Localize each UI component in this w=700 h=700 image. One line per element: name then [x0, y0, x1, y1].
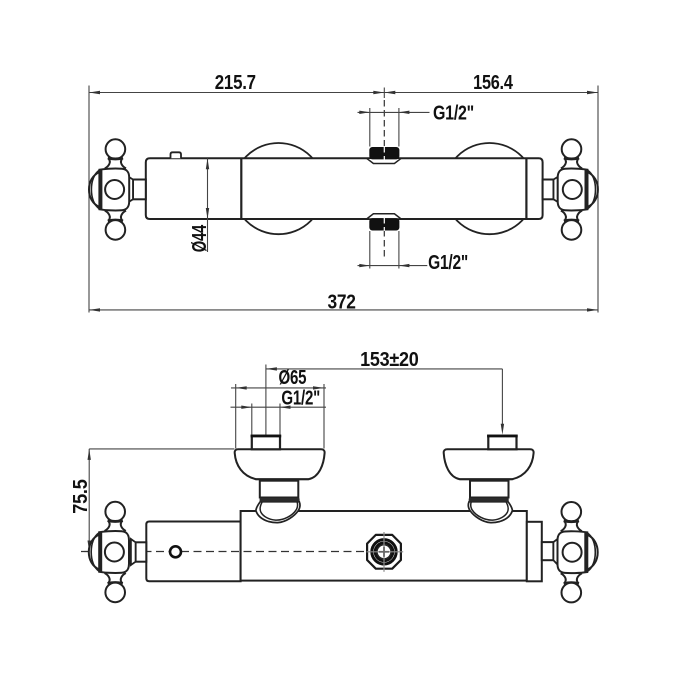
beak (eccentric olive) — [256, 502, 300, 523]
dia 65 dimension — [235, 384, 237, 449]
faucet body (top view) — [146, 158, 543, 219]
svg-text:Ø44: Ø44 — [189, 224, 211, 252]
svg-text:G1/2": G1/2" — [428, 252, 468, 274]
white dashes over nuts — [383, 146, 385, 161]
body division left — [240, 158, 242, 219]
stem right (front) — [542, 542, 554, 560]
escutcheon circle right — [444, 143, 535, 234]
center tick + dashed centerline of inlets — [383, 88, 385, 99]
svg-text:215.7: 215.7 — [215, 72, 256, 94]
dimension line 215.7 / 156.4 — [89, 92, 598, 94]
handle left (front) — [89, 502, 129, 602]
small button on top of body — [171, 152, 182, 158]
dia 44 dimension — [207, 158, 209, 252]
left connector (eccentric union + bell) — [235, 436, 325, 523]
svg-text:G1/2": G1/2" — [281, 387, 320, 409]
inlet nut top (black) — [370, 148, 399, 159]
body division right — [525, 158, 527, 219]
end cap right — [527, 522, 542, 582]
screw hole — [170, 546, 181, 557]
inlet nut chamfers — [367, 158, 402, 163]
stem left (front) — [136, 542, 147, 561]
G1/2 extension lines (top inlet) — [369, 108, 371, 147]
75.5 dimension line — [88, 449, 90, 556]
svg-text:75.5: 75.5 — [70, 479, 92, 513]
stem right — [543, 180, 554, 200]
nut — [260, 481, 299, 498]
G1/2 dimension (bottom inlet) — [358, 265, 428, 267]
372 dimension — [89, 309, 598, 311]
dashed centerline — [81, 551, 372, 553]
body barrel (main) — [241, 511, 527, 581]
G1/2 dimension (front) — [251, 404, 253, 435]
stub — [252, 436, 280, 450]
outlet port assembly — [367, 532, 404, 572]
stem left — [133, 180, 146, 200]
75.5 reference line — [89, 448, 234, 450]
body sleeve (left) — [146, 522, 240, 582]
handle left — [89, 139, 129, 239]
G1/2 dimension (top inlet) — [358, 111, 430, 113]
right connector (mirror) — [444, 436, 534, 523]
handle right — [558, 139, 598, 239]
G1/2 extension lines (bottom inlet) — [369, 231, 371, 269]
extension line left — [88, 86, 90, 313]
inlet nut bottom (black) — [370, 219, 399, 230]
handle right (front) — [558, 502, 598, 602]
svg-text:G1/2": G1/2" — [433, 103, 474, 125]
svg-text:153±20: 153±20 — [360, 349, 418, 371]
svg-text:Ø65: Ø65 — [279, 367, 307, 389]
153+-20 dimension — [265, 365, 267, 435]
bell — [235, 449, 325, 479]
svg-text:372: 372 — [328, 291, 356, 313]
svg-text:156.4: 156.4 — [473, 72, 513, 94]
extension line right — [597, 86, 599, 313]
escutcheon circle left — [233, 143, 324, 234]
